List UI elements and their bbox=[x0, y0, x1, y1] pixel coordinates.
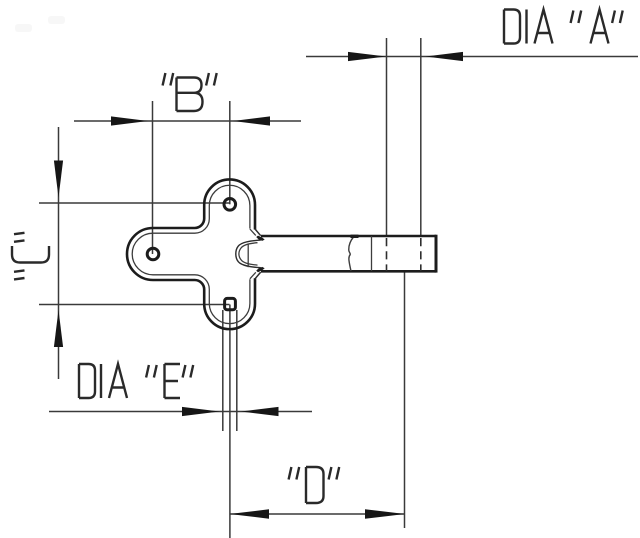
arrow A left bbox=[348, 52, 386, 61]
shaft hidden dashed line right bbox=[420, 238, 422, 271]
arrow E left bbox=[182, 407, 220, 416]
label DIA "E" bbox=[79, 364, 193, 398]
extension line C top bbox=[39, 202, 230, 204]
extension line D right bbox=[404, 272, 406, 529]
arrow B right bbox=[233, 116, 270, 125]
arrow A right bbox=[426, 52, 464, 61]
extension line E right twin bbox=[236, 310, 238, 431]
top hole bbox=[224, 199, 236, 211]
notch outer contour bbox=[236, 240, 261, 268]
left hole bbox=[147, 248, 159, 260]
arrow D right bbox=[365, 509, 405, 518]
shaft break wavy line bbox=[349, 237, 354, 271]
dim line D bbox=[230, 513, 406, 515]
extension line B right (through top hole) bbox=[229, 101, 231, 204]
tab wedge bottom bbox=[256, 267, 265, 272]
inner slant to shaft top bbox=[250, 229, 256, 236]
arrow C top bbox=[54, 161, 63, 198]
break junction blob on top edge bbox=[351, 235, 359, 238]
dim line DIA E bbox=[49, 411, 312, 413]
dim line B bbox=[74, 120, 301, 122]
faint smudge top-left 1 bbox=[15, 24, 32, 32]
inner slant to shaft bottom bbox=[250, 272, 256, 279]
dim line C vertical bbox=[58, 127, 60, 379]
arrow E right bbox=[241, 407, 279, 416]
shaft hidden dashed line left bbox=[386, 238, 388, 271]
label "D" bbox=[289, 467, 340, 503]
dim line DIA A bbox=[306, 56, 638, 58]
extension line C bottom bbox=[39, 304, 230, 306]
extension line B left (through left hole) bbox=[152, 101, 154, 254]
extension line A left bbox=[386, 38, 388, 236]
shaft top edge bbox=[261, 235, 436, 238]
bottom square hole bbox=[225, 298, 236, 309]
outer slant to shaft top bbox=[255, 229, 261, 236]
tab wedge top bbox=[256, 236, 265, 241]
shaft right end bbox=[435, 235, 438, 273]
key head inner contour bbox=[132, 185, 250, 323]
outer slant to shaft bottom bbox=[255, 272, 261, 279]
arrow D left bbox=[230, 509, 270, 518]
arrow B left bbox=[111, 116, 148, 125]
faint smudge top-left 2 bbox=[48, 16, 65, 24]
notch inner contour bbox=[239, 243, 258, 265]
shaft section line bbox=[371, 236, 373, 271]
key head outer contour bbox=[127, 179, 255, 329]
label DIA "A" bbox=[504, 10, 623, 44]
notch chord line bbox=[247, 244, 249, 267]
extension line E left twin bbox=[222, 310, 224, 431]
label "B" bbox=[163, 73, 217, 111]
label "C" rotated bbox=[12, 233, 49, 280]
shaft bottom edge bbox=[261, 270, 436, 273]
extension line A right bbox=[420, 38, 422, 236]
extension line D left (hole centerline) bbox=[229, 305, 231, 538]
arrow C bottom bbox=[54, 310, 63, 347]
